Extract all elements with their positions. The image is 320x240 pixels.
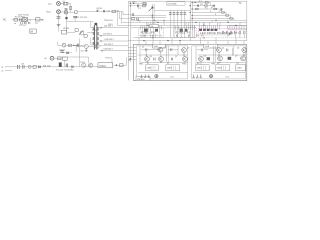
svg-text:Q3: Q3 xyxy=(187,47,189,49)
svg-text:Q8: Q8 xyxy=(204,56,206,58)
resistor R24 xyxy=(68,44,71,46)
svg-text:Q1: Q1 xyxy=(142,47,144,49)
svg-text:V.08: V.08 xyxy=(205,46,210,48)
capacitor C3 xyxy=(65,8,68,9)
thermistor TH2 xyxy=(28,65,31,68)
tap wire 5 xyxy=(99,45,128,47)
transformer primary wire xyxy=(91,22,93,45)
horizontal bus lines xyxy=(131,14,166,16)
connector pins xyxy=(230,27,244,29)
module C mid caps xyxy=(222,31,231,34)
power bus right pair xyxy=(190,1,194,40)
svg-text:TP63: TP63 xyxy=(211,63,215,65)
transistor Q11 xyxy=(158,47,163,52)
resistor R18 xyxy=(214,8,217,10)
screw terminal left xyxy=(155,74,158,77)
wire xyxy=(54,57,63,59)
capacitor C18 xyxy=(132,13,133,16)
wire vertical xyxy=(66,14,68,32)
wire K1 drop xyxy=(64,60,66,67)
IC box U5 xyxy=(98,63,113,68)
wire xyxy=(113,57,127,65)
svg-text:0v: 0v xyxy=(2,71,4,73)
svg-text:C12: C12 xyxy=(107,10,110,12)
svg-text:D23 R53 3: D23 R53 3 xyxy=(105,39,114,41)
svg-text:D1 R9: D1 R9 xyxy=(97,8,102,10)
diode arrow D12 xyxy=(219,9,222,12)
capacitor C24 xyxy=(201,49,202,52)
module A bottom marks xyxy=(143,35,154,37)
module C component row dark xyxy=(199,29,202,31)
svg-text:Q6: Q6 xyxy=(150,56,152,58)
ground xyxy=(57,25,61,27)
connector box top right xyxy=(228,26,247,29)
ground group left xyxy=(140,75,150,78)
bus wire row xyxy=(138,72,245,74)
svg-text:U1 Q3: U1 Q3 xyxy=(93,43,98,45)
bus rungs xyxy=(140,20,240,25)
capacitor C19 xyxy=(137,18,138,21)
capacitor C23 xyxy=(171,58,172,61)
TV module top box xyxy=(128,1,247,41)
module B caps continuation xyxy=(170,27,184,38)
transistor Q27 xyxy=(241,56,246,61)
svg-text:C52: C52 xyxy=(81,51,84,53)
module A ic body xyxy=(155,29,158,32)
tap diode D24 xyxy=(102,50,104,52)
resistor R4 xyxy=(75,11,77,14)
svg-text:PC1 C51 TL1 Q5 R61: PC1 C51 TL1 Q5 R61 xyxy=(56,70,74,72)
tap diode D23 xyxy=(101,40,103,42)
svg-text:R41 C41: R41 C41 xyxy=(43,65,50,67)
inner sub-box left xyxy=(136,46,187,79)
wire drops into PSU box xyxy=(139,38,244,45)
svg-text:D25 R55 5: D25 R55 5 xyxy=(104,44,113,46)
capacitor C11 xyxy=(137,5,138,8)
module C capacitors xyxy=(235,31,245,35)
wire vertical from J2 xyxy=(58,14,60,32)
label box left xyxy=(153,44,166,48)
wires left grid xyxy=(138,46,188,65)
module A transformer dark body xyxy=(144,29,148,32)
node junction xyxy=(76,45,77,46)
svg-text:P3: P3 xyxy=(197,63,199,65)
shunt reg U4 xyxy=(82,63,86,67)
svg-text:250V T3.15A: 250V T3.15A xyxy=(18,14,29,17)
transistor Q23 xyxy=(242,48,247,53)
module C led arrow xyxy=(227,33,230,36)
svg-text:C31: C31 xyxy=(21,63,24,65)
svg-text:F2 C9 RV1: F2 C9 RV1 xyxy=(15,17,26,19)
svg-text:tny: tny xyxy=(35,21,38,24)
svg-text:TV: TV xyxy=(239,3,242,5)
diode D4 xyxy=(38,66,40,68)
diode D5 xyxy=(72,66,74,68)
wire xyxy=(87,31,94,33)
svg-text:R1: R1 xyxy=(117,10,119,12)
svg-text:P9 1: P9 1 xyxy=(234,33,239,35)
svg-text:CY1 CY2: CY1 CY2 xyxy=(19,25,27,27)
capacitor C10 xyxy=(60,51,64,52)
wire ladder tap xyxy=(192,15,230,18)
wire xyxy=(67,31,75,33)
wire xyxy=(60,3,63,5)
varistor RV1 xyxy=(23,18,28,22)
capacitor C5 xyxy=(73,16,77,17)
resistor R7 xyxy=(84,35,87,38)
neon lamp NE1 xyxy=(64,11,67,14)
dark cluster R34 xyxy=(228,57,232,60)
module C dashed box xyxy=(198,28,246,37)
wire ladder tap xyxy=(192,6,214,9)
resistor R21 xyxy=(230,18,233,20)
wire xyxy=(60,53,88,63)
aux rectifier D14 xyxy=(62,43,66,47)
rectifier D3 xyxy=(84,44,88,48)
wire xyxy=(88,45,95,47)
capacitor C1 xyxy=(20,18,21,21)
connector box CN2 xyxy=(166,65,180,71)
node junction xyxy=(116,65,117,66)
svg-text:Q5: Q5 xyxy=(237,47,239,49)
diode D8 xyxy=(133,2,135,4)
svg-text:M: M xyxy=(31,29,33,33)
resistor R20 xyxy=(226,15,229,17)
secondary tap wire 3 xyxy=(98,40,128,42)
svg-text:P5: P5 xyxy=(237,63,239,65)
capacitor C26 xyxy=(77,44,78,47)
transistor Q12 xyxy=(182,48,187,53)
vertical pair mid xyxy=(152,4,154,27)
capacitor C21 xyxy=(171,48,172,51)
tap diode D21 xyxy=(101,27,103,29)
wire ladder tap xyxy=(192,12,226,15)
transistor Q24 xyxy=(199,56,204,61)
svg-text:Q2: Q2 xyxy=(164,47,166,49)
svg-text:(12V MB): (12V MB) xyxy=(168,3,177,5)
wire ladder tap xyxy=(192,9,221,12)
capacitor C2b xyxy=(29,22,30,24)
relay box K1 xyxy=(62,57,67,60)
inductor L1 xyxy=(18,65,20,69)
wire ladder tap xyxy=(130,5,146,7)
svg-text:D22 R52 2: D22 R52 2 xyxy=(103,33,112,35)
capacitor bank C12-C15 xyxy=(170,10,184,26)
label box bottom left xyxy=(136,77,150,81)
transistor Q13 xyxy=(145,57,150,62)
svg-text:CN62: CN62 xyxy=(167,68,172,70)
module B dashed box xyxy=(174,28,197,38)
connector box CN5 xyxy=(236,65,246,71)
controller block U3 xyxy=(61,30,66,34)
wire ladder tap xyxy=(192,3,210,6)
secondary tap wire 2 xyxy=(98,35,128,37)
feedback chain wire xyxy=(5,66,98,68)
thermistor TH1 xyxy=(20,22,23,25)
svg-text:P2: P2 xyxy=(167,63,169,65)
connector box CN1 xyxy=(146,65,159,71)
wire ladder tap xyxy=(130,3,146,6)
label box right xyxy=(204,44,218,48)
svg-text:AC: AC xyxy=(3,18,7,21)
wires right grid xyxy=(196,46,245,65)
power bus left pair xyxy=(128,1,130,80)
node junction xyxy=(130,3,131,4)
PSU outer box xyxy=(133,44,246,80)
resistor R19 xyxy=(222,12,225,14)
svg-text:CN61: CN61 xyxy=(147,68,152,70)
module A bottom parts xyxy=(141,34,160,38)
wire xyxy=(60,11,64,13)
ground group right xyxy=(192,75,202,78)
resistor R16 xyxy=(205,5,208,7)
resistor R14 xyxy=(143,5,146,7)
module A dashed box xyxy=(139,28,164,38)
svg-text:OUT/Ps: OUT/Ps xyxy=(92,30,99,32)
svg-text:CN65: CN65 xyxy=(237,68,242,70)
node junctions bottom block xyxy=(157,49,158,50)
svg-text:D21 R51 1: D21 R51 1 xyxy=(104,26,113,28)
capacitor C22 xyxy=(154,58,155,61)
svg-text:U3 R33: U3 R33 xyxy=(63,28,69,30)
node junctions on bus xyxy=(137,20,138,21)
diode D2 xyxy=(97,10,98,12)
svg-text:CN64: CN64 xyxy=(217,68,222,70)
module A inner hline xyxy=(140,34,163,36)
svg-text:R71 D7: R71 D7 xyxy=(106,57,112,59)
diode D6 xyxy=(67,52,69,54)
screw terminal right xyxy=(209,74,212,77)
wire corner nest xyxy=(123,12,131,15)
wire under modules xyxy=(133,37,196,39)
module B drops xyxy=(176,22,195,30)
module C inner hline xyxy=(199,34,232,36)
resistor R12 xyxy=(120,64,123,67)
resistor R10 xyxy=(33,66,36,69)
diode D10 xyxy=(195,2,197,3)
resistor R15 xyxy=(205,2,208,4)
wire xyxy=(67,21,94,23)
arrow xyxy=(128,58,131,61)
svg-text:TR101 R1: TR101 R1 xyxy=(104,20,113,22)
resistor R2 xyxy=(36,18,40,21)
capacitor C2 xyxy=(25,22,26,24)
snubber wire top xyxy=(77,11,123,13)
dark cluster R33 xyxy=(207,57,210,60)
diode arrow D9 xyxy=(149,7,154,11)
svg-text:cn: cn xyxy=(14,23,16,25)
module C drops xyxy=(200,22,220,30)
module A drops xyxy=(141,22,162,33)
diode D1 xyxy=(65,17,67,19)
module box M1 xyxy=(30,29,36,33)
capacitor C16 xyxy=(197,5,198,7)
diode arrow D11 xyxy=(211,5,215,8)
fuse F1 xyxy=(64,2,68,5)
svg-text:Q4: Q4 xyxy=(222,47,224,49)
svg-text:Q9: Q9 xyxy=(235,56,237,58)
transistor Q14 xyxy=(159,57,164,62)
transformer T1 xyxy=(93,25,95,50)
wire ladder tap xyxy=(192,18,234,20)
wire xyxy=(68,11,75,13)
svg-text:CN63: CN63 xyxy=(197,68,202,70)
wire xyxy=(111,59,113,63)
left bracket wire xyxy=(79,39,81,67)
capacitor C20 xyxy=(146,48,147,51)
svg-text:D24 R54 4: D24 R54 4 xyxy=(104,49,113,51)
transistor Q21 xyxy=(217,48,222,53)
module A label box U6 xyxy=(150,24,158,27)
node label 12V xyxy=(167,2,185,5)
optocoupler U2 xyxy=(59,62,62,67)
wire xyxy=(75,45,77,52)
module B bottom marks xyxy=(177,34,190,36)
svg-text:P1: P1 xyxy=(147,63,149,65)
transistor Q4 xyxy=(89,63,93,67)
svg-text:Neut: Neut xyxy=(47,11,52,14)
resistor R1 xyxy=(14,18,17,21)
wire under modules 2 xyxy=(128,40,247,42)
svg-text:R11 C11 D11: R11 C11 D11 xyxy=(76,17,87,19)
resistor R11 xyxy=(57,57,61,60)
connector box CN3 xyxy=(196,65,209,71)
inner sub-box right xyxy=(192,46,246,79)
wire xyxy=(66,44,84,46)
capacitor C25 xyxy=(227,49,228,52)
secondary tap wire 4 xyxy=(100,50,128,52)
node junctions xyxy=(143,40,144,41)
node junction xyxy=(152,15,153,16)
svg-text:17IPS20: 17IPS20 xyxy=(137,79,146,81)
svg-text:D51 Z1: D51 Z1 xyxy=(60,49,66,51)
svg-text:LED DRIVE BOARD 901: LED DRIVE BOARD 901 xyxy=(200,31,234,35)
node junctions bus2 xyxy=(192,2,193,3)
capacitor C9 xyxy=(66,64,67,68)
transistor Q25 xyxy=(218,56,223,61)
capacitor C4 xyxy=(57,17,61,18)
resistor R3 xyxy=(70,6,72,9)
wire xyxy=(80,45,84,47)
capacitor C8 xyxy=(23,65,24,68)
module C cap stems xyxy=(235,34,244,38)
svg-text:TP61: TP61 xyxy=(139,63,143,65)
connector box CN4 xyxy=(216,65,230,71)
resistor R22 xyxy=(131,18,134,20)
secondary tap wire 1 xyxy=(98,27,128,29)
svg-text:Q7: Q7 xyxy=(175,56,177,58)
module B transformer dark body xyxy=(180,29,183,32)
transistor Q2 xyxy=(95,44,99,48)
svg-text:PD902 PS: PD902 PS xyxy=(175,31,191,35)
transformer top blob xyxy=(95,23,98,25)
wire xyxy=(154,9,190,11)
resistor R13 xyxy=(143,2,146,4)
svg-text:PD901 PS: PD901 PS xyxy=(141,30,156,34)
module B diode body xyxy=(185,29,188,32)
svg-text:P4: P4 xyxy=(217,63,219,65)
aux wire xyxy=(58,42,62,45)
diode D15 xyxy=(73,45,75,47)
transistor Q15 xyxy=(183,57,188,62)
wire xyxy=(68,4,71,13)
svg-text:IC201: IC201 xyxy=(99,65,106,68)
tap diode D22 xyxy=(101,35,103,37)
wire xyxy=(12,19,45,21)
capacitor C7 xyxy=(103,10,104,12)
svg-text:V.06: V.06 xyxy=(154,46,159,48)
transistor Q1 xyxy=(79,30,83,34)
svg-text:TP62: TP62 xyxy=(182,63,186,65)
resistor R6 xyxy=(75,29,78,32)
resistor R17 xyxy=(195,8,198,10)
ground stub D3 xyxy=(85,49,88,52)
resistor R8 xyxy=(112,10,116,12)
bus stubs into box xyxy=(128,47,136,59)
module C lower marks xyxy=(197,34,203,36)
